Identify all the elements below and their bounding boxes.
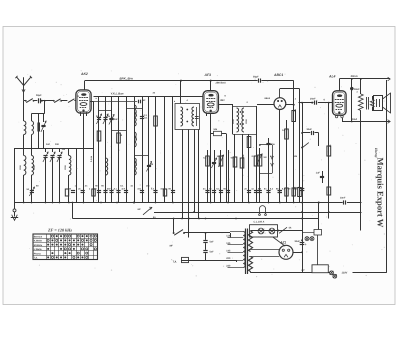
bus aux line: [73, 218, 319, 220]
capacitor: [153, 190, 157, 192]
wire rail: [293, 105, 295, 203]
tube AL4: [333, 91, 347, 115]
wire ABC1 left: [257, 104, 274, 106]
wire osc link: [134, 155, 149, 157]
scan speckle: [134, 101, 135, 102]
wire AF3 anode: [218, 104, 232, 106]
tube AK2: [76, 90, 91, 113]
antenna: [16, 77, 23, 86]
capacitor 10nF series: [343, 200, 345, 204]
table dots: [51, 235, 53, 237]
tuned circuit link: [44, 101, 46, 114]
resistor R12a: [292, 188, 295, 196]
tube ABC1: [274, 98, 286, 110]
node: [318, 202, 320, 204]
wire ABC1 right: [286, 104, 294, 106]
tap 145: [228, 252, 244, 254]
diode AVC loop: [260, 144, 272, 146]
svg-text:4nF: 4nF: [46, 143, 51, 146]
wire: [72, 203, 74, 219]
wire osc link: [112, 130, 127, 132]
wire: [194, 130, 196, 213]
wire plate supply 30mA: [339, 78, 390, 80]
capacitor 30uF branch: [302, 132, 310, 134]
capacitor: [258, 190, 262, 192]
capacitor: [205, 190, 209, 192]
node: [133, 202, 135, 204]
resistor R10: [285, 129, 289, 139]
svg-text:5A: 5A: [153, 216, 156, 219]
trimmer capacitor: [97, 117, 101, 119]
capacitor C8: [71, 190, 75, 192]
IF transformer T1: [175, 104, 200, 130]
inductor oscillator coil B: [134, 132, 136, 147]
wire: [182, 130, 184, 220]
wire AZ1 output: [293, 252, 302, 254]
wire dial lamp line: [251, 230, 303, 232]
capacitor 5nF: [205, 233, 207, 240]
resistor: [154, 116, 158, 126]
wire rail: [207, 150, 209, 203]
wire to AK2 grid: [74, 100, 76, 102]
svg-text:K.Welle: K.Welle: [34, 240, 43, 243]
capacitor: [97, 190, 101, 192]
trimmer: [212, 162, 216, 164]
capacitor: [116, 190, 120, 192]
wire AZ1 heater: [249, 249, 279, 251]
resistor: [97, 131, 101, 141]
trimmer capacitor: [147, 165, 151, 167]
svg-text:200: 200: [226, 257, 231, 260]
inductor output secondary: [370, 100, 374, 108]
dial lamp box: [250, 225, 278, 237]
svg-text:10n: 10n: [146, 185, 150, 188]
loudspeaker: [374, 96, 383, 111]
valve data table: [33, 234, 98, 260]
svg-text:+: +: [305, 243, 307, 247]
capacitor: [140, 116, 144, 118]
svg-text:1uF: 1uF: [316, 171, 321, 174]
ground: [14, 203, 16, 209]
wire rail: [286, 120, 288, 203]
resistor R5: [219, 156, 223, 166]
capacitor 1uF: [322, 171, 324, 183]
power transformer filament secondary: [248, 257, 252, 272]
wire output return 5mA: [344, 121, 390, 123]
wire switch feed: [173, 219, 175, 233]
wire AL4 top: [339, 79, 341, 91]
capacitor: [226, 190, 230, 192]
svg-text:AK2: AK2: [80, 72, 88, 76]
IF transformer T2: [232, 104, 234, 134]
svg-text:2BV: 2BV: [220, 99, 225, 102]
wire rail: [234, 134, 236, 203]
lamp LA2: [269, 228, 275, 234]
switch S4 mains: [173, 232, 175, 234]
wire: [42, 100, 54, 102]
wire ABC1 cathode: [279, 110, 281, 203]
tap 200: [228, 260, 244, 262]
page border frame: [3, 27, 395, 305]
wire ABC1 grid bridge: [280, 88, 300, 90]
inductor field coil: [360, 79, 362, 94]
svg-text:ABC1: ABC1: [273, 73, 283, 77]
wire rail: [220, 150, 222, 203]
svg-text:20nF: 20nF: [310, 97, 316, 100]
capacitor: [266, 190, 270, 192]
wire oscillator rail: [172, 96, 174, 203]
resistor R10b: [285, 188, 288, 196]
resistor: [327, 187, 331, 195]
wire oscillator rail: [134, 96, 136, 203]
resistor R8: [254, 156, 258, 166]
inductor T2 secondary: [242, 108, 244, 132]
svg-text:ZF = 128 kHz: ZF = 128 kHz: [47, 228, 72, 233]
trimmer capacitor: [109, 118, 113, 120]
capacitor C6 50: [31, 175, 33, 203]
wire ABC1 anode feed: [293, 81, 295, 105]
svg-text:50n: 50n: [271, 143, 276, 146]
wire HT rail: [302, 103, 304, 273]
inductor T2 primary: [237, 108, 239, 132]
capacitor 5nF: [203, 250, 207, 252]
capacitor osc coupling: [138, 100, 140, 104]
svg-text:10n: 10n: [160, 188, 164, 191]
inductor L4: [31, 148, 33, 156]
svg-text:220: 220: [226, 265, 231, 268]
switch S2: [53, 100, 55, 102]
svg-text:2M: 2M: [294, 155, 297, 158]
svg-text:Bereich: Bereich: [34, 235, 43, 238]
phono input T.A.: [181, 260, 236, 262]
wire: [318, 102, 333, 104]
wire: [198, 130, 200, 219]
switch S3: [68, 99, 74, 103]
jack CL extra speaker: [259, 208, 261, 214]
capacitor C1 50pF: [38, 98, 40, 103]
svg-text:5nF: 5nF: [210, 251, 215, 254]
wire T1 feed: [180, 81, 182, 104]
svg-text:30uF: 30uF: [307, 128, 313, 131]
wire oscillator rail: [111, 96, 113, 203]
wire AF3 cathode: [210, 113, 212, 202]
svg-text:50pF: 50pF: [253, 76, 259, 79]
wire speaker bus down: [360, 122, 362, 231]
trimmer capacitor C5: [59, 148, 61, 152]
power transformer core: [245, 229, 247, 275]
wire oscillator rail: [155, 96, 157, 203]
node: [41, 100, 43, 102]
resistor R6: [233, 157, 237, 167]
inductor L3: [31, 114, 33, 122]
svg-text:110V: 110V: [342, 272, 348, 275]
wire screen rail: [328, 103, 330, 219]
wire antenna input line: [24, 100, 26, 102]
wire: [236, 260, 238, 262]
wire AK2 osc line: [94, 101, 138, 103]
capacitor: [219, 190, 223, 192]
power transformer HT secondary: [248, 231, 252, 252]
svg-text:125: 125: [226, 242, 231, 245]
pin AK2: [80, 112, 82, 116]
inductor L5: [68, 148, 70, 156]
capacitor T2 padding: [196, 107, 198, 126]
wire AZ1 anode feed: [273, 237, 285, 246]
resistor R11 0.5M: [292, 111, 296, 122]
svg-text:T.A.: T.A.: [173, 260, 178, 263]
wire anode line BPK: [85, 80, 258, 82]
capacitor: [124, 190, 128, 192]
wire: [23, 135, 25, 156]
wire rail: [279, 150, 281, 203]
wire: [188, 130, 190, 238]
node: [180, 80, 182, 82]
wire: [34, 100, 38, 102]
wire oscillator rail: [105, 96, 107, 203]
svg-text:1M: 1M: [263, 156, 266, 159]
svg-text:110: 110: [226, 235, 231, 238]
svg-text:Phono: Phono: [34, 252, 42, 255]
svg-text:MF: MF: [170, 244, 174, 247]
potentiometer P1 volume: [259, 148, 261, 203]
wire: [328, 272, 330, 274]
svg-text:Marquis Export W: Marquis Export W: [376, 158, 386, 228]
wire: [318, 133, 320, 146]
wire: [317, 235, 319, 265]
wire grid line YKL: [94, 96, 204, 98]
wire osc link: [99, 110, 112, 112]
wire bus mixer row: [14, 148, 94, 150]
switch S5: [278, 230, 280, 232]
wire grid cap AK2: [84, 81, 86, 90]
capacitor: [254, 190, 258, 192]
wire rail: [256, 140, 258, 203]
svg-text:2BK/5mA: 2BK/5mA: [215, 81, 227, 84]
pin AL4: [335, 115, 337, 117]
output transformer core: [366, 97, 368, 110]
inductor oscillator coil A: [134, 105, 136, 126]
resistor: [117, 133, 121, 143]
capacitor C7: [30, 190, 34, 192]
capacitor 10uF: [300, 188, 305, 190]
resistor: [163, 189, 166, 196]
wire: [61, 100, 67, 102]
mains plug: [330, 271, 334, 275]
wire: [76, 148, 78, 203]
capacitor C9: [81, 190, 85, 192]
bus mains bottom: [251, 272, 313, 274]
capacitor: [212, 190, 216, 192]
switch S1: [25, 100, 27, 102]
resistor R4: [206, 156, 210, 166]
bus chassis ground: [15, 202, 343, 204]
wire: [261, 80, 293, 82]
tube AZ1 rectifier: [279, 245, 293, 259]
capacitor 50nF: [266, 143, 270, 145]
svg-text:6BA2: 6BA2: [265, 97, 271, 100]
wire osc link: [126, 108, 142, 110]
capacitor C10 50pF: [258, 79, 260, 83]
resistor R7 10k: [240, 158, 244, 168]
capacitor: [109, 118, 113, 120]
lamp LA1: [258, 228, 264, 234]
svg-text:BPK, Brn: BPK, Brn: [120, 76, 133, 80]
bus lamp line: [154, 212, 362, 214]
wire oscillator rail: [148, 96, 150, 203]
tap 125: [228, 244, 244, 246]
wire right edge bus: [386, 80, 388, 273]
svg-text:145: 145: [226, 250, 231, 253]
capacitor: [247, 190, 251, 192]
svg-text:M.Welle: M.Welle: [34, 244, 43, 247]
inductor oscillator coil C: [134, 158, 136, 175]
svg-text:30mA: 30mA: [351, 75, 358, 78]
svg-text:Y.K.L.Ban: Y.K.L.Ban: [111, 92, 124, 96]
capacitor: [171, 190, 175, 192]
svg-text:5nF: 5nF: [210, 241, 215, 244]
inductor L2: [24, 156, 26, 176]
inductor: [106, 158, 108, 175]
capacitor 50nF blob: [351, 79, 353, 122]
resistor 50ohm: [327, 146, 331, 156]
wire AK2 side: [90, 101, 94, 103]
wire AF coupling: [299, 102, 314, 104]
trimmer capacitor C4: [52, 148, 54, 152]
svg-text:10nF: 10nF: [340, 196, 346, 199]
wire oscillator rail: [126, 96, 128, 203]
svg-text:L.Welle: L.Welle: [34, 248, 43, 251]
wire rail: [248, 134, 250, 203]
wire rail: [228, 150, 230, 203]
wire oscillator rail: [118, 96, 120, 203]
wire oscillator rail: [164, 96, 166, 203]
capacitor: [109, 190, 113, 192]
capacitor: [140, 190, 144, 192]
tap 220: [228, 267, 244, 269]
svg-text:UY: UY: [302, 269, 306, 272]
trimmer capacitor: [103, 117, 107, 119]
fuse box: [312, 265, 328, 273]
wire AL4 cathode: [342, 118, 344, 122]
wire rail: [268, 138, 270, 203]
capacitor C11 20nF: [314, 101, 316, 105]
svg-text:2nF: 2nF: [114, 118, 119, 121]
pin AF3: [206, 112, 208, 116]
wire: [353, 272, 387, 274]
wire AK2 cathode down: [83, 113, 85, 202]
power transformer primary: [243, 232, 245, 268]
resistor R7b: [247, 137, 251, 148]
svg-text:30uF: 30uF: [295, 240, 301, 243]
capacitor C2 padding: [38, 114, 40, 123]
switch arrow 5A: [143, 208, 152, 215]
node: [193, 211, 195, 213]
switch S3: [301, 147, 303, 149]
trimmer capacitor C3a: [43, 114, 45, 123]
tube AF3: [203, 91, 218, 114]
svg-text:Horny: Horny: [374, 147, 378, 158]
wire oscillator rail: [98, 96, 100, 203]
wire: [23, 175, 25, 203]
wire rail: [242, 134, 244, 203]
capacitor: [103, 190, 107, 192]
svg-text:T.A.: T.A.: [34, 257, 38, 260]
svg-text:AL4: AL4: [328, 75, 336, 79]
resistor R1: [65, 189, 68, 196]
phono switch cluster: [314, 230, 322, 236]
svg-text:1M: 1M: [217, 155, 220, 158]
svg-text:C.L.100 A: C.L.100 A: [254, 220, 265, 223]
wire rail: [299, 89, 301, 203]
svg-text:50pF: 50pF: [36, 94, 42, 97]
wire AF3 top: [210, 81, 212, 91]
wire rail: [214, 150, 216, 203]
wire oscillator rail: [142, 96, 144, 203]
svg-text:4A: 4A: [288, 227, 292, 230]
capacitor: [278, 190, 282, 192]
inductor L1 antenna coil: [23, 101, 25, 121]
wire: [318, 203, 320, 219]
svg-text:5mA: 5mA: [352, 118, 358, 121]
capacitor 30uF electrolytic: [300, 242, 305, 244]
capacitor: [278, 190, 282, 192]
resistor R12 on rail: [298, 188, 302, 197]
svg-text:1.Lsu: 1.Lsu: [90, 155, 93, 162]
node: [351, 121, 353, 123]
resistor R3 50k: [211, 133, 214, 135]
tap 110: [228, 237, 244, 239]
resistor R2: [92, 189, 95, 196]
